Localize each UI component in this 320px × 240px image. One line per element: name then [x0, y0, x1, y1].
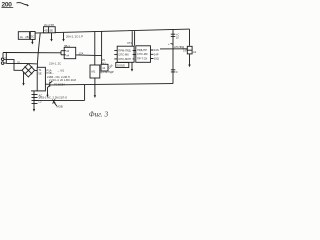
RF box U6 — [136, 46, 151, 63]
ground arrow under U2 — [31, 39, 33, 42]
wire: U6 to antenna matching — [160, 48, 187, 50]
svg-text:5E: 5E — [38, 72, 41, 76]
wire: rail step down at x84.6 — [84, 85, 86, 101]
svg-text:МОВ: МОВ — [57, 105, 63, 109]
leader arrow from label 200 — [17, 3, 29, 5]
svg-text:2B: 2B — [25, 35, 28, 39]
wire: top supply bus — [18, 29, 190, 33]
pin ticks U5 inner — [133, 50, 135, 59]
wire: stub from T1 bottom to ladder — [31, 90, 37, 92]
ground arrow under U4 — [94, 78, 96, 96]
svg-text:4D: 4D — [44, 28, 47, 32]
capacitor C2 — [171, 34, 175, 36]
bridge rectifier BR1 — [22, 64, 35, 77]
pin stubs U3 left — [61, 51, 64, 55]
transformer T1 (tall box) — [37, 67, 45, 91]
pin stubs U6 right — [151, 50, 154, 59]
svg-text:СПС-МЛП: СПС-МЛП — [118, 57, 131, 61]
label box DGND — [116, 63, 129, 68]
svg-text:→ 6/1: → 6/1 — [57, 68, 65, 72]
wire: U3 output to MCU rail — [76, 54, 102, 57]
svg-text:A1: A1 — [193, 50, 197, 54]
svg-text:ЗМЗ-2 НС, 2.2М 21П-О: ЗМЗ-2 НС, 2.2М 21П-О — [39, 96, 68, 100]
wire: bridge to transformer — [35, 70, 37, 72]
wire: drop x40 to T1 — [37, 33, 40, 67]
wire: bus drop to antenna x189.5 — [189, 29, 191, 46]
box U1 (input filter block) — [18, 32, 29, 40]
wire: J1 to bridge — [4, 53, 22, 70]
capacitor C3 — [171, 70, 175, 72]
wire: bus drop x102 — [101, 32, 103, 65]
ground arrow under ladder — [33, 109, 35, 112]
crystal wires above U5 — [132, 31, 134, 46]
svg-text:Д1: Д1 — [17, 61, 21, 65]
emitter ground arrow of Q1 — [46, 95, 48, 98]
svg-text:M1: M1 — [92, 70, 96, 74]
wire: left rail to PSU — [3, 52, 61, 54]
box U2 (varistor block) — [30, 32, 35, 40]
ground arrow with net label 20A-2 — [63, 33, 65, 40]
box U7 small driver — [101, 64, 108, 71]
ground arrow under U5 — [131, 62, 133, 69]
AC input terminal J1 — [1, 58, 4, 61]
svg-text:C: C — [176, 70, 178, 74]
svg-text:ДГРМ-ПДР: ДГРМ-ПДР — [100, 70, 114, 74]
box U4 (reference) — [90, 65, 100, 78]
svg-text:2C-2 5П: 2C-2 5П — [44, 23, 54, 27]
pin ticks between U5 and U6 — [134, 51, 136, 55]
svg-text:DGND: DGND — [117, 63, 125, 67]
wire: left rail drop to AC input — [2, 53, 4, 58]
svg-text:п2: п2 — [102, 66, 105, 70]
svg-text:2 21C-4, 20 1-BC 21M: 2 21C-4, 20 1-BC 21M — [49, 78, 77, 82]
AC input terminal J2 — [1, 62, 4, 65]
svg-text:20A-2, 2C-1 P: 20A-2, 2C-1 P — [66, 35, 83, 39]
svg-text:3C: 3C — [31, 34, 34, 38]
svg-text:14P: 14P — [154, 52, 159, 56]
svg-text:21A-1, 2C: 21A-1, 2C — [49, 62, 61, 66]
svg-text:5E: 5E — [50, 28, 53, 32]
box C1 (snubber cap) — [44, 27, 56, 33]
transistor Q1 — [46, 81, 53, 95]
svg-text:17A: 17A — [79, 51, 84, 55]
wire: J2 to bridge top — [4, 62, 38, 65]
pin ticks U3 inside — [64, 51, 66, 55]
svg-text:СПС-МК: СПС-МК — [118, 52, 129, 56]
svg-text:ПРМ-ПРД: ПРМ-ПРД — [118, 48, 130, 52]
svg-text:P1B –: P1B – — [47, 71, 55, 75]
MCU box U5 — [117, 46, 134, 62]
svg-text:15Q: 15Q — [154, 57, 159, 61]
wire: bottom rail lower (y101) — [34, 99, 85, 101]
PSU box U3 — [64, 47, 76, 58]
svg-text:СПС-МК: СПС-МК — [137, 52, 148, 56]
varistor RV1 on lower rail — [52, 99, 57, 106]
ground arrow under C1 — [51, 33, 53, 40]
svg-text:XT1: XT1 — [127, 41, 132, 45]
svg-text:13N: 13N — [154, 48, 159, 52]
terminal ladder P1 under T1 — [33, 91, 35, 110]
svg-text:L2: L2 — [39, 100, 42, 104]
wire: vertical rail x173 — [172, 29, 174, 83]
svg-text:1A: 1A — [20, 35, 23, 39]
ground arrow under E1 — [189, 54, 191, 65]
svg-text:п4: п4 — [66, 53, 69, 57]
svg-text:п6: п6 — [66, 49, 69, 53]
antenna box E1 — [187, 46, 192, 54]
pin stubs U5 left — [114, 50, 117, 59]
svg-text:5B-1: 5B-1 — [64, 44, 70, 48]
svg-text:ПР-Т.СК: ПР-Т.СК — [137, 56, 148, 60]
wire: bus drop x95.5 — [94, 32, 96, 65]
svg-text:Фиг. 3: Фиг. 3 — [89, 111, 109, 119]
ground arrow under bridge — [23, 72, 25, 84]
wire: bottom rail upper (y85) — [50, 84, 173, 85]
svg-text:ПРД-ПР: ПРД-ПР — [137, 48, 147, 52]
svg-text:10: 10 — [176, 35, 179, 39]
